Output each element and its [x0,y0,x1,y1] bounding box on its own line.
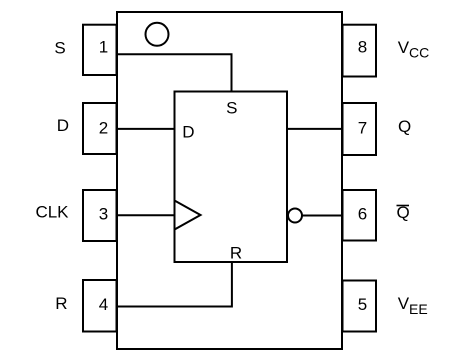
svg-text:R: R [230,243,242,262]
wire pin4 to R input [117,262,232,307]
svg-text:D: D [182,123,194,142]
pin 2 box [83,103,117,154]
pin 3 box [83,190,117,241]
svg-text:7: 7 [358,119,367,138]
pin 1 box [83,25,117,75]
svg-text:8: 8 [358,38,367,57]
svg-text:Q: Q [398,117,411,136]
wire pin1 to S input [117,54,232,91]
wire pin2 to D input [117,128,175,130]
flip-flop body U1A [175,92,288,263]
pin 4 box [83,280,117,332]
svg-text:1: 1 [99,38,108,57]
svg-text:3: 3 [99,205,108,224]
pin-1 indicator circle [146,23,169,46]
svg-text:4: 4 [99,295,108,314]
svg-text:D: D [57,116,69,135]
svg-text:S: S [54,39,65,58]
wire Q output to pin7 [287,128,343,130]
svg-text:6: 6 [358,205,367,224]
svg-text:5: 5 [358,295,367,314]
clock triangle [175,201,201,230]
svg-text:R: R [55,294,67,313]
pin 5 box [343,281,377,332]
svg-text:S: S [226,98,237,117]
wire pin3 to CLK input [117,214,175,216]
wire Qbar bubble to pin6 [302,215,343,217]
IC body U1 [117,12,342,349]
svg-text:2: 2 [99,119,108,138]
pin 6 box [343,190,377,241]
pin 8 box [343,25,377,77]
inversion bubble on Qbar output [288,209,302,223]
pin 7 box [343,103,377,155]
overline of Qbar [397,205,410,207]
svg-text:CLK: CLK [35,202,69,221]
